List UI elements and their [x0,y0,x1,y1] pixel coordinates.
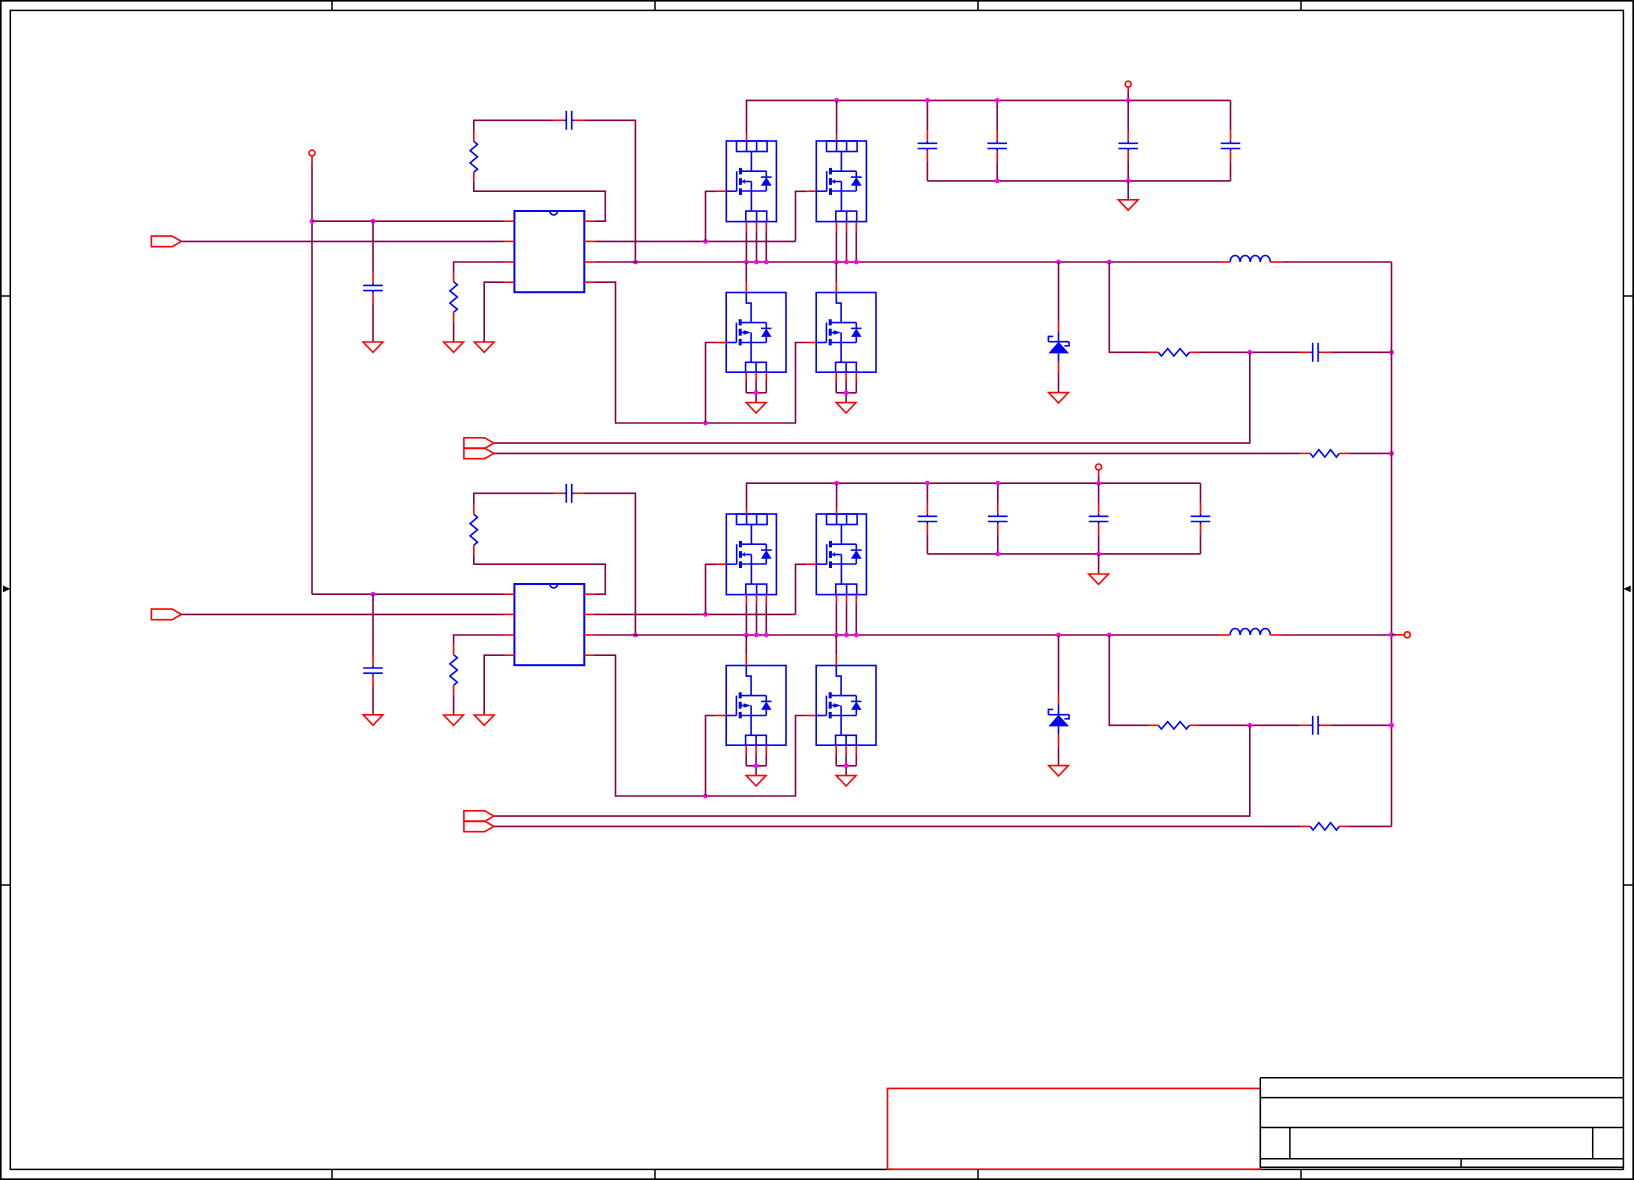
junction feedback tap A [1107,260,1112,265]
wire C6 top lead [1230,100,1232,130]
wire C1 bottom lead [372,304,374,343]
wire C11 top lead [997,483,999,503]
wire C14 to output B [1331,724,1392,726]
wire Q1/Q2 source to phase A [746,230,856,262]
ground Q8 [836,776,856,786]
wire high-gate riser 1 B [706,564,717,614]
wire feedback riser B [1109,635,1149,725]
wire Q3 drain riser [745,262,747,282]
capacitor C9 [554,484,585,503]
wire feedback return A [494,352,1250,443]
junction phase rail FET sources B [744,633,859,638]
wire C3 top lead [926,100,928,130]
junction cap bank top B [925,481,1000,486]
resistor R6 [470,505,477,555]
ground Q4 [836,403,856,413]
wire cap bank tie rail A [927,180,1230,182]
junction low-gate riser A [703,421,708,426]
wire R5 top [454,635,505,645]
junction high-gate riser A [703,239,708,244]
transistor Q1 high-side [716,135,776,231]
wire C5 bottom lead [1127,161,1129,181]
resistor R5 [450,645,457,694]
wire feedback riser A [1109,262,1149,352]
diode D2 zener [1048,695,1069,747]
capacitor C2 [554,111,585,130]
wire input net A [181,240,504,242]
junction Q7 source bus [754,763,759,768]
junction high-gate riser B [703,612,708,617]
capacitor C1 [363,273,383,304]
junction output vertical lower A [1389,451,1394,456]
junction phase rail FET sources A [744,260,859,265]
wire C1 top lead [372,221,374,272]
wire pin1-right to RC loop A [474,182,606,222]
transistor Q2 high-side [806,135,866,231]
wire R7 to C14 [1199,724,1300,726]
wire zener top B [1058,635,1060,695]
wire C13 bottom lead [1200,534,1202,554]
wire phase rail A [594,261,1219,263]
resistor R4 [1301,450,1349,457]
wire C13 top lead [1200,483,1202,503]
wire C3 bottom lead [926,161,928,181]
transistor Q7 low-side [716,655,786,754]
ground cap bank A [1118,200,1138,210]
port J4 feedback B [464,811,494,832]
ground D2 [1049,766,1069,776]
wire RC loop top B [474,493,554,505]
wire Q6 drain riser [836,483,838,507]
resistor R3 [1149,349,1199,356]
junction output C14 tap [1389,723,1394,728]
ground R1 [444,342,464,352]
transistor Q6 high-side [806,508,866,604]
wire L1 to output vertical [1281,261,1391,263]
capacitor C13 [1191,503,1211,534]
wire Q8 drain riser [835,635,837,655]
junction Q3 source bus [754,390,759,395]
wire C5 top lead [1127,100,1129,130]
junction VREF / pin1 net A [310,219,315,224]
ground R5 [444,715,464,725]
wire R1 bottom [453,322,455,342]
junction zener tap B [1056,633,1061,638]
wire RC loop top A [474,120,554,132]
ground Q3 [746,403,766,413]
ground U2 pin4 [474,715,494,725]
wire C12 bottom lead [1098,534,1100,554]
wire C4 bottom lead [996,161,998,181]
wire high-gate bus A [594,240,795,242]
wire RC loop right B [585,493,636,635]
wire zener top A [1058,262,1060,322]
wire Q2 drain riser [836,100,838,134]
wire L2 to output vertical [1281,634,1391,636]
title block [1260,1078,1623,1168]
wire C12 top lead [1098,483,1100,503]
port J2 feedback A [464,438,494,459]
junction Q6 drain [834,481,839,486]
resistor R8 [1301,823,1349,830]
wire cap bank tie rail B [927,553,1200,555]
wire C11 bottom lead [997,534,999,554]
wire R1 top [454,262,505,272]
junction feedback tap B [1107,633,1112,638]
wire zener bottom A [1058,373,1060,393]
wire high-gate riser 1 A [706,191,717,241]
wire pin1-right to RC loop B [474,555,606,595]
capacitor C10 [918,503,938,534]
wire low-gate bus A [594,282,806,423]
wire C8 top lead [372,594,374,655]
junction RC loop / pin3 A [633,260,638,265]
wire phase rail B [594,634,1219,636]
inductor L1 [1219,255,1281,262]
junction feedback mid A [1247,350,1252,355]
junction Q4 source bus [844,390,849,395]
junction output node B [1389,632,1394,637]
wire R8 to output B [1349,825,1392,827]
ground Q7 [746,776,766,786]
junction RC loop / pin3 B [633,633,638,638]
wire VCC rail B [747,483,1201,507]
wire pin1 net A [312,220,505,222]
ground C1 [363,342,383,352]
title block note box [888,1088,1261,1169]
wire input net B [181,613,504,615]
transistor Q8 low-side [806,655,876,754]
junction zener tap A [1056,260,1061,265]
transistor Q3 low-side [716,282,786,381]
capacitor C8 [363,655,383,686]
junction Q2 drain [834,98,839,103]
wire R5 bottom [453,695,455,715]
ground D1 [1049,393,1069,403]
op-amp U2 gate driver B [505,584,595,665]
terminal TP3 VCC B [1096,464,1102,483]
capacitor C3 [918,130,938,161]
junction VCC terminal B [1096,481,1101,486]
diode D1 zener [1048,322,1069,374]
wire R3 to C7 [1199,351,1300,353]
wire sense line B [494,825,1301,827]
wire Q3 source bus [746,382,766,403]
wire pin1 net B [312,593,505,595]
ground U1 pin4 [474,342,494,352]
ground cap bank B [1089,574,1109,584]
terminal TP4 output [1392,632,1411,638]
wire U1 pin4 ground [484,282,504,342]
wire high-gate riser 2 A [796,191,807,241]
wire C4 top lead [996,100,998,130]
wire VREF vertical [311,161,313,594]
wire R4 to output A [1349,452,1392,454]
transistor Q5 high-side [716,508,776,604]
wire C6 bottom lead [1230,161,1232,181]
junction VCC terminal A [1126,98,1131,103]
wire Q7 drain riser [745,635,747,655]
junction low-gate riser B [703,794,708,799]
wire high-gate riser 2 B [796,564,807,614]
junction cap bank tie B [995,552,1101,557]
capacitor C14 [1300,716,1331,735]
wire C10 bottom lead [926,534,928,554]
port J1 input A [151,236,181,247]
wire Q5/Q6 source to phase B [746,603,856,635]
capacitor C7 [1300,343,1331,362]
wire output vertical [1391,262,1393,826]
junction feedback mid B [1247,723,1252,728]
wire C7 to output A [1331,351,1392,353]
junction C-filter tap B [371,592,376,597]
wire Q4 source bus [836,382,856,403]
resistor R1 [450,272,457,321]
wire VCC rail A [747,100,1231,134]
wire zener bottom B [1058,746,1060,766]
wire high-gate bus B [594,613,795,615]
wire U2 pin4 ground [484,655,504,715]
wire cap bank ground lead A [1127,181,1129,200]
junction C-filter tap A [371,219,376,224]
wire RC loop right A [585,120,636,262]
capacitor C12 [1089,503,1109,534]
wire low-gate riser 1 A [706,343,717,424]
inductor L2 [1219,628,1281,635]
junction cap bank top A [925,98,1000,103]
wire C8 bottom lead [372,686,374,715]
wire low-gate bus B [594,655,806,796]
resistor R2 [470,132,477,182]
junction output vertical upper A [1389,350,1394,355]
capacitor C4 [987,130,1007,161]
ground C8 [363,715,383,725]
wire C10 top lead [926,483,928,503]
port J3 input B [151,609,181,620]
junction output vertical upper B [1389,723,1394,728]
wire Q4 drain riser [835,262,837,282]
wire sense line A [494,452,1301,454]
junction cap bank tie A [995,179,1131,184]
op-amp U1 gate driver A [505,211,595,292]
terminal TP2 VCC A [1125,81,1131,100]
wire feedback return B [494,725,1250,816]
junction Q8 source bus [844,763,849,768]
terminal TP1 node VREF [309,150,315,161]
wire Q7 source bus [746,755,766,776]
wire low-gate riser 1 B [706,716,717,797]
transistor Q4 low-side [806,282,876,381]
resistor R7 [1149,722,1199,729]
capacitor C5 [1118,130,1138,161]
wire cap bank ground lead B [1098,554,1100,574]
capacitor C11 [988,503,1008,534]
capacitor C6 [1221,130,1241,161]
wire Q8 source bus [836,755,856,776]
